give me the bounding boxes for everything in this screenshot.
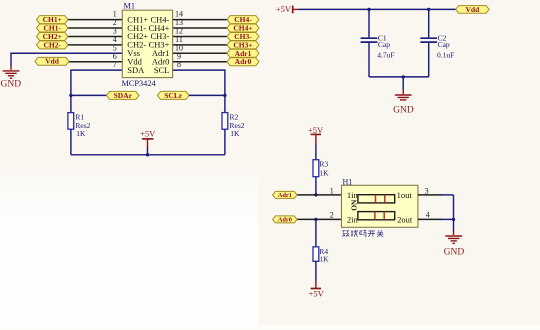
- pin number 7: [113, 60, 117, 69]
- pin number 11: [175, 35, 183, 44]
- wire pin14 to tag CH4-: [173, 19, 227, 21]
- wire pin12 to tag CH3-: [173, 35, 227, 37]
- svg-text:8: 8: [177, 60, 181, 69]
- port tag CH4-: [227, 15, 259, 24]
- wire pullup rail: [71, 154, 225, 156]
- power +5V top-right: [276, 4, 300, 14]
- label R1 Res2: [75, 121, 90, 130]
- wire pin5 Vss to GND: [11, 53, 122, 70]
- pin number 3: [113, 27, 117, 36]
- svg-text:Adr1: Adr1: [278, 192, 292, 199]
- wire caps bottom rail: [369, 76, 429, 78]
- label R3: [319, 160, 328, 169]
- capacitor C2: [420, 9, 437, 77]
- svg-text:Cap: Cap: [438, 40, 450, 49]
- svg-text:2in: 2in: [347, 215, 359, 225]
- svg-text:Adr0: Adr0: [235, 57, 252, 66]
- power +5V bottom-top: [308, 125, 324, 160]
- pin number 1 H1: [330, 186, 334, 195]
- label R2 1K: [230, 129, 240, 138]
- label R4 1K: [319, 254, 329, 263]
- wire pin11 to tag CH3+: [173, 44, 227, 46]
- label C2 Cap: [438, 40, 450, 49]
- svg-text:2: 2: [330, 211, 334, 220]
- wire pin3 to GND: [418, 195, 454, 231]
- svg-text:4: 4: [426, 211, 430, 220]
- label C1 4.7uF: [377, 51, 394, 60]
- svg-text:Vdd: Vdd: [466, 5, 481, 14]
- svg-text:GND: GND: [1, 79, 22, 89]
- wire pin2 to tag CH1-: [68, 27, 122, 29]
- op-amp U1 MCP3424 body: [122, 10, 172, 77]
- wire pin1 row: [297, 194, 341, 196]
- wire pin3 to tag CH2+: [68, 35, 122, 37]
- pin number 13: [175, 18, 183, 27]
- pin number 14: [175, 10, 183, 19]
- label R1: [75, 112, 84, 121]
- power +5V mid: [140, 129, 156, 155]
- pin name CH1- / CH4+: [127, 23, 169, 33]
- wire pin4 to tag CH2-: [68, 44, 122, 46]
- svg-text:CH2-: CH2-: [44, 40, 62, 49]
- label H1 designator: [343, 177, 353, 186]
- label M1 designator: [124, 2, 136, 11]
- svg-text:Cap: Cap: [378, 40, 390, 49]
- svg-text:4.7uF: 4.7uF: [377, 51, 394, 60]
- pin number 5: [113, 43, 117, 52]
- pin number 1: [113, 10, 117, 19]
- svg-text:Adr0: Adr0: [278, 217, 292, 224]
- svg-text:1out: 1out: [397, 190, 413, 200]
- svg-text:1: 1: [330, 186, 334, 195]
- wire R4 to +5V: [315, 261, 317, 281]
- resistor R1: [68, 113, 74, 130]
- svg-text:SDA: SDA: [127, 65, 145, 75]
- pin name CH2+ / CH3-: [127, 31, 169, 41]
- junction SCL-SCLr: [223, 94, 226, 97]
- port tag CH1+: [37, 15, 69, 24]
- port tag SCLr: [157, 91, 189, 100]
- power +5V bottom-bottom: [309, 281, 325, 299]
- port tag Vdd left: [35, 57, 69, 66]
- label MCP3424 value: [122, 79, 157, 88]
- wire pin6 Vdd: [69, 61, 122, 63]
- svg-text:+5V: +5V: [140, 129, 156, 139]
- switch H1 body: [342, 185, 418, 227]
- port tag Adr0 bottom: [273, 216, 298, 224]
- pin name 2in: [347, 215, 359, 225]
- wire pin4: [418, 218, 454, 220]
- svg-text:ON: ON: [349, 199, 358, 211]
- wire SDAr stub: [71, 94, 107, 96]
- pin number 4: [113, 35, 117, 44]
- pin number 8: [177, 60, 181, 69]
- wire GND stem right: [453, 231, 455, 235]
- wire pin9 to tag Adr0: [173, 61, 227, 63]
- svg-text:MCP3424: MCP3424: [122, 79, 157, 88]
- svg-text:SDAr: SDAr: [114, 91, 133, 100]
- pin number 2 H1: [330, 211, 334, 220]
- svg-text:+5V: +5V: [309, 289, 325, 299]
- label R2: [230, 112, 239, 121]
- capacitor C1: [361, 9, 378, 77]
- port tag CH2+: [37, 32, 69, 41]
- svg-text:1K: 1K: [319, 254, 329, 263]
- pin number 9: [177, 52, 181, 61]
- svg-text:+5V: +5V: [276, 4, 292, 14]
- ground GND right: [444, 236, 465, 258]
- port tag Vdd top-right: [456, 5, 489, 14]
- junction R4 pin2: [314, 218, 317, 221]
- label ON rotated: [349, 199, 358, 211]
- switch element 1 slider: [358, 195, 395, 203]
- wire pin10 to tag Adr1: [173, 52, 227, 54]
- svg-text:1K: 1K: [319, 169, 329, 178]
- pin number 3 H1: [425, 186, 429, 195]
- pin number 10: [175, 43, 183, 52]
- svg-text:GND: GND: [393, 106, 414, 116]
- pin name 1in: [347, 190, 359, 200]
- junction GND mid: [402, 75, 405, 78]
- junction SDA-SDAr: [69, 94, 72, 97]
- svg-text:1K: 1K: [76, 129, 86, 138]
- wire pin1 to tag CH1+: [68, 19, 122, 21]
- wire pin8 SCL down to R2: [173, 70, 225, 155]
- port tag Adr0: [227, 57, 259, 66]
- port tag CH1-: [37, 24, 69, 33]
- label R4: [319, 247, 328, 256]
- svg-text:M1: M1: [124, 2, 136, 11]
- label C2 0.1uF: [437, 51, 454, 60]
- wire pin2 to R4: [315, 219, 317, 246]
- label C2: [438, 33, 447, 42]
- ground GND mid: [393, 95, 414, 116]
- svg-text:R3: R3: [319, 160, 328, 169]
- wire pin2 row: [297, 218, 341, 220]
- pin number 6: [113, 52, 117, 61]
- pin name Vdd / Adr0: [127, 57, 169, 67]
- junction C1 top: [367, 8, 370, 11]
- svg-text:2out: 2out: [397, 215, 413, 225]
- svg-text:Vdd: Vdd: [45, 57, 60, 66]
- pin name 1out: [397, 190, 413, 200]
- pin name CH2- / CH3+: [127, 40, 169, 50]
- pin number 2: [113, 18, 117, 27]
- label caption dual DIP switch (Chinese): [342, 230, 383, 237]
- wire +5V rail top: [299, 8, 456, 10]
- wire pin13 to tag CH4+: [173, 27, 227, 29]
- svg-text:SCLr: SCLr: [164, 91, 183, 100]
- svg-text:3: 3: [425, 186, 429, 195]
- pin name SDA / SCL: [127, 65, 169, 75]
- junction pin4: [452, 218, 455, 221]
- junction C2 top: [427, 8, 430, 11]
- port tag Adr1 bottom: [273, 191, 298, 199]
- port tag Adr1: [227, 49, 259, 58]
- pin number 4 H1: [426, 211, 430, 220]
- ground GND left: [1, 71, 22, 89]
- wire pin7 SDA down to R1: [71, 70, 122, 155]
- junction R3 pin1: [314, 193, 317, 196]
- label C1: [378, 33, 387, 42]
- svg-text:7: 7: [113, 60, 117, 69]
- label C1 Cap: [378, 40, 390, 49]
- pin name CH1+ / CH4-: [127, 14, 169, 24]
- pin name 2out: [397, 215, 413, 225]
- junction +5V rail: [146, 153, 149, 156]
- port tag CH2-: [37, 40, 69, 49]
- svg-text:H1: H1: [343, 177, 353, 186]
- pin number 12: [175, 27, 183, 36]
- label R1 1K: [76, 129, 86, 138]
- switch element 2 slider: [358, 212, 395, 220]
- svg-text:0.1uF: 0.1uF: [437, 51, 454, 60]
- wire R3 to pin1: [315, 177, 317, 195]
- svg-text:SCL: SCL: [154, 65, 170, 75]
- port tag CH3-: [227, 32, 259, 41]
- label R3 1K: [319, 169, 329, 178]
- port tag CH3+: [227, 40, 259, 49]
- resistor R3: [313, 160, 319, 177]
- label R2 Res2: [230, 121, 245, 130]
- resistor R2: [222, 113, 228, 130]
- wire SCLr stub: [189, 94, 225, 96]
- wire GND stem mid: [402, 77, 404, 94]
- port tag CH4+: [227, 24, 259, 33]
- svg-text:GND: GND: [444, 248, 465, 258]
- port tag SDAr: [107, 91, 140, 100]
- pin name Vss / Adr1: [127, 48, 169, 58]
- svg-text:1in: 1in: [347, 190, 359, 200]
- resistor R4: [313, 247, 319, 261]
- svg-text:1K: 1K: [230, 129, 240, 138]
